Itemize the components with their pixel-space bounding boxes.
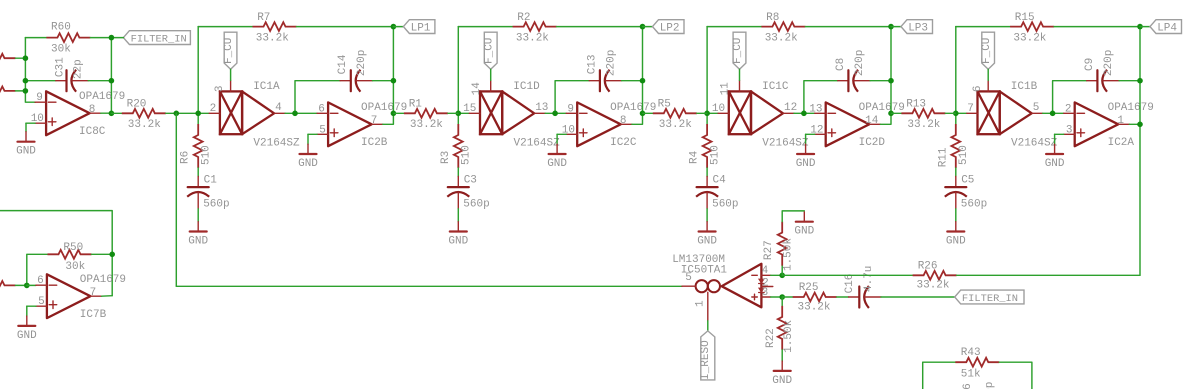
OTA IC1C (V2164SZ) xyxy=(712,80,809,149)
wire IC2C non-inverting to ground xyxy=(557,133,566,135)
wire from left resistor to node xyxy=(16,57,26,59)
wire IC2A ground riser xyxy=(1054,134,1056,144)
wire node up to C9 xyxy=(1053,81,1087,114)
wire R50 to output node xyxy=(92,253,113,255)
wire F_CU flag to IC1B CV pin xyxy=(987,69,989,80)
wire top rail R15 to output node xyxy=(1054,26,1140,28)
resistor R11 xyxy=(937,124,970,168)
svg-text:R4: R4 xyxy=(689,150,701,164)
svg-text:220p: 220p xyxy=(356,50,368,76)
svg-text:R26: R26 xyxy=(918,261,938,273)
net flag FILTER_IN (top) xyxy=(123,31,190,46)
OTA IC50TA1 (LM13700M) xyxy=(672,254,773,321)
wire IC2B ground riser xyxy=(307,134,309,144)
wire top rail R2 to output node xyxy=(557,26,643,28)
wire R3 to C3 xyxy=(457,168,459,177)
wire to R60 left xyxy=(25,37,46,39)
svg-text:33.2k: 33.2k xyxy=(256,32,289,44)
svg-text:14: 14 xyxy=(471,82,483,96)
wire IC8C output to R20 xyxy=(111,112,122,114)
capacitor C5 xyxy=(945,174,987,210)
resistor R2 xyxy=(513,12,557,45)
svg-text:11: 11 xyxy=(720,82,732,96)
svg-text:IC7B: IC7B xyxy=(80,309,107,321)
wire C13 to feedback vertical xyxy=(622,80,643,82)
svg-text:1.50k: 1.50k xyxy=(783,319,795,352)
OTA IC1D (V2164SZ) xyxy=(463,80,560,149)
resistor R60 xyxy=(46,21,90,55)
wire R11 to C5 xyxy=(955,168,957,177)
wire IC2A output to feedback line xyxy=(1129,123,1140,125)
wire node to LP3 flag xyxy=(891,26,901,28)
wire IC2C ground riser xyxy=(556,134,558,144)
svg-text:C8: C8 xyxy=(835,58,847,71)
node pin 3 / R25 / R22 xyxy=(779,294,785,300)
wire R4 to C4 xyxy=(706,168,708,177)
svg-text:22p: 22p xyxy=(73,59,85,79)
wire from left edge to IC7B output node xyxy=(0,211,112,296)
capacitor C13 xyxy=(586,50,621,92)
svg-text:V2164SZ: V2164SZ xyxy=(253,137,300,149)
partial resistor at left edge (row 3) xyxy=(0,281,16,290)
wire bottom-right box right side xyxy=(999,362,1032,389)
node left bus / C31 xyxy=(23,78,29,84)
wire left vertical bus to IC8C pin 9 xyxy=(25,38,35,103)
svg-text:F_CU: F_CU xyxy=(483,38,495,64)
node C31 / feedback vertical xyxy=(109,78,115,84)
wire left resistor to IC7B input node xyxy=(16,284,27,286)
svg-text:C3: C3 xyxy=(464,174,477,186)
svg-text:510: 510 xyxy=(709,145,721,165)
resistor R5 xyxy=(653,98,697,131)
op-amp IC7B (OPA1679) xyxy=(36,274,126,321)
svg-text:R7: R7 xyxy=(257,12,270,24)
wire output vertical to top rail xyxy=(890,27,892,114)
wire output vertical to top rail xyxy=(392,27,394,114)
wire IC2B non-inverting to ground xyxy=(308,133,317,135)
svg-text:R2: R2 xyxy=(517,12,530,24)
svg-text:R3: R3 xyxy=(440,151,452,164)
svg-text:3: 3 xyxy=(214,85,226,92)
svg-text:GND: GND xyxy=(188,236,208,248)
wire IC1D output to node xyxy=(545,112,555,114)
node C9 junction xyxy=(1137,78,1143,84)
wire C14 to feedback vertical xyxy=(373,80,394,82)
svg-text:GND: GND xyxy=(17,330,37,342)
wire resonance feedback vertical xyxy=(175,113,177,286)
wire node to IC2B inverting input xyxy=(295,112,317,114)
svg-text:510: 510 xyxy=(461,145,473,165)
svg-text:LP4: LP4 xyxy=(1157,23,1177,35)
wire feedback vertical of IC8C xyxy=(110,38,112,114)
svg-text:F_CU: F_CU xyxy=(223,38,235,64)
wire resonance feedback horizontal xyxy=(176,285,682,287)
wire node up to R50 xyxy=(27,254,48,285)
net flag LP3 xyxy=(901,20,933,35)
ground below R22 xyxy=(772,361,792,387)
resistor R20 xyxy=(122,98,166,131)
ground below C3 xyxy=(448,222,468,248)
node C14 junction xyxy=(391,78,397,84)
wire IC2D output jog to node xyxy=(880,113,891,124)
svg-text:IC2A: IC2A xyxy=(1108,137,1135,149)
op-amp IC2C (OPA1679) xyxy=(562,102,657,149)
capacitor C16 xyxy=(844,266,881,308)
wire node to IC1D input pin xyxy=(458,112,469,114)
wire IC7B output stub xyxy=(102,295,113,298)
svg-text:7: 7 xyxy=(371,115,378,127)
wire top rail left of R15 xyxy=(956,26,1010,28)
wire C4 to ground xyxy=(706,209,708,222)
net flag F_CU stage 2 xyxy=(483,32,497,69)
svg-text:560p: 560p xyxy=(203,198,229,210)
OTA IC1A (V2164SZ) xyxy=(209,80,300,149)
wire bottom-right box left side xyxy=(923,362,956,389)
wire node to IC1B input pin xyxy=(956,112,967,114)
ground below C1 xyxy=(188,222,208,248)
resistor R1 xyxy=(404,98,448,131)
svg-text:F_CU: F_CU xyxy=(981,38,993,64)
svg-text:15: 15 xyxy=(463,103,476,115)
capacitor C14 xyxy=(337,50,372,92)
wire stage3 input riser to top rail xyxy=(706,27,708,114)
svg-text:6: 6 xyxy=(972,85,984,92)
svg-text:R1: R1 xyxy=(409,98,423,110)
wire top rail left of R2 xyxy=(458,26,512,28)
wire node to LP1 flag xyxy=(393,26,403,28)
svg-text:4: 4 xyxy=(275,102,282,114)
partial label of capacitor C46 (cut at bottom edge) xyxy=(962,382,996,389)
node IC7B inverting input xyxy=(24,283,30,289)
wire top rail left of R8 xyxy=(707,26,761,28)
svg-text:8: 8 xyxy=(89,104,96,116)
resistor R26 xyxy=(913,261,957,292)
svg-text:V2164SZ: V2164SZ xyxy=(1011,137,1058,149)
wire C9 to feedback vertical xyxy=(1119,80,1140,82)
ground at IC8C pin 10 xyxy=(16,132,36,158)
svg-text:R22: R22 xyxy=(765,328,777,348)
svg-text:R43: R43 xyxy=(961,347,981,359)
wire R6 to C1 xyxy=(197,168,199,177)
ground at IC2D xyxy=(796,144,816,170)
svg-text:7: 7 xyxy=(967,103,974,115)
node IC8C output xyxy=(109,111,115,117)
wire LP4 feedback vertical down to resonance mixer xyxy=(1139,27,1141,276)
partial resistor at left edge (row 2) xyxy=(0,87,16,96)
svg-text:33.2k: 33.2k xyxy=(917,280,950,292)
svg-text:V2164SZ: V2164SZ xyxy=(762,137,809,149)
svg-text:12: 12 xyxy=(784,102,797,114)
svg-text:GND: GND xyxy=(448,236,468,248)
wire R20 to filter input node xyxy=(166,112,198,114)
wire stage4 input riser to top rail xyxy=(955,27,957,114)
svg-text:6: 6 xyxy=(318,103,325,115)
svg-text:C1: C1 xyxy=(204,174,218,186)
svg-text:OPA1679: OPA1679 xyxy=(610,102,656,114)
svg-text:GND: GND xyxy=(298,158,318,170)
svg-text:2: 2 xyxy=(1065,103,1072,115)
wire R26 to LP4 feedback vertical xyxy=(957,274,1140,276)
svg-text:510: 510 xyxy=(958,145,970,165)
wire out of R5 xyxy=(697,112,707,114)
svg-text:LP2: LP2 xyxy=(660,23,680,35)
svg-text:1: 1 xyxy=(1117,115,1124,127)
wire node to R3 xyxy=(457,113,459,124)
wire C5 to ground xyxy=(955,209,957,222)
net flag LP2 xyxy=(653,20,685,35)
svg-text:GND: GND xyxy=(794,226,814,238)
wire node to FILTER_IN flag xyxy=(111,37,123,39)
ground below C5 xyxy=(946,222,966,248)
ground at IC2B xyxy=(298,144,318,170)
wire pin 1 to I_RESO flag xyxy=(707,321,709,331)
svg-text:IC2C: IC2C xyxy=(610,137,637,149)
svg-text:220p: 220p xyxy=(854,50,866,76)
wire F_CU flag to IC1C CV pin xyxy=(739,69,741,80)
svg-text:IC1A: IC1A xyxy=(253,81,280,93)
svg-text:8: 8 xyxy=(620,115,627,127)
svg-text:33.2k: 33.2k xyxy=(516,32,549,44)
svg-text:33.2k: 33.2k xyxy=(410,119,443,131)
wire IC2A non-inverting to ground xyxy=(1055,133,1064,135)
node left bus / input resistor 2 xyxy=(23,88,29,94)
node IC2A output xyxy=(1137,122,1143,128)
svg-text:GND: GND xyxy=(697,236,717,248)
svg-text:GND: GND xyxy=(547,158,567,170)
svg-text:220p: 220p xyxy=(605,50,617,76)
wire IC7B ground riser xyxy=(26,306,28,316)
svg-text:2: 2 xyxy=(210,103,217,115)
capacitor C8 xyxy=(835,50,870,92)
svg-text:10: 10 xyxy=(712,103,725,115)
svg-text:R11: R11 xyxy=(937,147,949,167)
node IC2C output xyxy=(640,111,646,117)
resistor R4 xyxy=(689,124,722,168)
svg-text:13: 13 xyxy=(535,102,548,114)
svg-text:6: 6 xyxy=(37,275,44,287)
svg-text:R25: R25 xyxy=(799,282,819,294)
svg-text:9: 9 xyxy=(36,92,43,104)
svg-text:IC1C: IC1C xyxy=(762,81,789,93)
svg-text:220p: 220p xyxy=(1103,50,1115,76)
wire node up to C8 xyxy=(804,81,838,114)
wire node to IC1A input pin xyxy=(198,112,209,114)
op-amp IC2B (OPA1679) xyxy=(317,102,407,149)
node top rail / LP1 xyxy=(391,24,397,30)
net flag LP1 xyxy=(403,20,435,35)
svg-text:LP3: LP3 xyxy=(908,23,928,35)
op-amp IC2A (OPA1679) xyxy=(1064,102,1154,149)
wire node up to C13 xyxy=(555,81,589,114)
svg-text:IC8C: IC8C xyxy=(79,126,106,138)
svg-text:IC2B: IC2B xyxy=(361,137,388,149)
wire node to R4 xyxy=(706,113,708,124)
svg-text:560p: 560p xyxy=(712,198,738,210)
svg-text:7: 7 xyxy=(90,287,97,299)
resistor R7 xyxy=(253,12,297,45)
ground at IC2A xyxy=(1045,144,1065,170)
svg-text:OPA1679: OPA1679 xyxy=(859,102,905,114)
wire R22 to ground xyxy=(781,350,783,361)
svg-text:33.2k: 33.2k xyxy=(128,119,161,131)
svg-text:30k: 30k xyxy=(65,261,85,273)
resistor R22 xyxy=(765,306,795,353)
svg-text:5: 5 xyxy=(38,296,45,308)
svg-text:33.2k: 33.2k xyxy=(765,32,798,44)
svg-text:FILTER_IN: FILTER_IN xyxy=(962,293,1018,305)
wire into R13 xyxy=(891,112,901,114)
node resonance feedback tap xyxy=(174,111,180,117)
node R50 / IC7B output xyxy=(109,252,115,258)
wire F_CU flag to IC1A CV pin xyxy=(230,69,232,80)
op-amp IC2D (OPA1679) xyxy=(809,102,905,149)
svg-text:4: 4 xyxy=(762,265,769,277)
capacitor C4 xyxy=(696,174,738,210)
svg-text:C14: C14 xyxy=(337,54,349,74)
svg-text:51k: 51k xyxy=(961,368,981,380)
capacitor C31 xyxy=(55,57,89,92)
wire IC2D ground riser xyxy=(805,134,807,144)
wire node to R26 xyxy=(782,274,912,276)
wire node to IC7B pin 6 xyxy=(27,284,36,286)
wire out of R1 xyxy=(448,112,458,114)
node pin 4 / R27 / R26 xyxy=(779,273,785,279)
svg-text:560p: 560p xyxy=(984,382,996,389)
net flag F_CU stage 3 xyxy=(732,32,746,69)
svg-text:3: 3 xyxy=(762,287,769,299)
wire into R1 xyxy=(394,112,404,114)
svg-text:OPA1679: OPA1679 xyxy=(1108,102,1154,114)
wire node to R11 xyxy=(955,113,957,124)
svg-text:5: 5 xyxy=(319,124,326,136)
svg-text:LP1: LP1 xyxy=(411,23,431,35)
svg-text:33.2k: 33.2k xyxy=(659,119,692,131)
svg-text:1.50k: 1.50k xyxy=(782,238,794,271)
node top rail / LP3 xyxy=(888,24,894,30)
wire R60 right to FILTER_IN node xyxy=(90,37,111,39)
svg-text:R50: R50 xyxy=(63,242,83,254)
ground at IC7B pin 5 xyxy=(17,316,37,342)
svg-text:560p: 560p xyxy=(463,198,489,210)
node top rail / LP2 xyxy=(640,24,646,30)
resistor R6 xyxy=(180,124,213,168)
OTA IC1B (V2164SZ) xyxy=(967,80,1058,149)
svg-text:GND: GND xyxy=(16,146,36,158)
capacitor C1 xyxy=(187,174,229,210)
wire node up to C14 xyxy=(295,81,340,114)
op-amp U IC8C xyxy=(31,91,126,138)
svg-text:FILTER_IN: FILTER_IN xyxy=(131,34,187,46)
wire pin 3 to node xyxy=(771,296,783,298)
svg-text:30k: 30k xyxy=(51,43,71,55)
wire stage1 input riser to top rail xyxy=(197,27,199,114)
wire output vertical to top rail xyxy=(642,27,644,114)
wire IC8C pin 10 to ground xyxy=(26,122,35,124)
ground above R27 xyxy=(794,212,814,238)
capacitor C9 xyxy=(1084,50,1119,92)
svg-text:510: 510 xyxy=(200,145,212,165)
svg-text:C4: C4 xyxy=(713,174,727,186)
net flag LP4 xyxy=(1150,20,1182,35)
svg-text:GND: GND xyxy=(946,236,966,248)
wire IC1B output to node xyxy=(1043,112,1053,114)
svg-text:33.2k: 33.2k xyxy=(907,119,940,131)
wire node to R22 xyxy=(781,297,783,306)
wire top rail R7 to output node xyxy=(297,26,394,28)
wire from left resistor to node xyxy=(16,90,26,92)
svg-text:C16: C16 xyxy=(844,274,856,294)
svg-text:C13: C13 xyxy=(586,54,598,74)
svg-text:V2164SZ: V2164SZ xyxy=(514,137,561,149)
wire into R5 xyxy=(643,112,653,114)
wire C1 to ground xyxy=(197,209,199,222)
svg-text:C5: C5 xyxy=(961,174,974,186)
wire node to IC1C input pin xyxy=(707,112,718,114)
svg-text:IC1B: IC1B xyxy=(1011,81,1038,93)
wire C8 to feedback vertical xyxy=(870,80,891,82)
svg-text:5: 5 xyxy=(685,272,692,284)
wire node to LP4 flag xyxy=(1140,26,1150,28)
svg-text:GND: GND xyxy=(1045,158,1065,170)
resistor R3 xyxy=(440,124,473,168)
wire IC2D non-inverting to ground xyxy=(806,133,815,135)
wire IC8C output to node xyxy=(101,112,112,114)
wire node to C31 xyxy=(25,80,55,82)
resistor R8 xyxy=(761,12,805,45)
svg-text:I_RESO: I_RESO xyxy=(700,340,712,380)
wire out of R13 xyxy=(945,112,955,114)
svg-text:IC1D: IC1D xyxy=(513,81,540,93)
wire node to R27 xyxy=(781,266,783,276)
svg-text:1: 1 xyxy=(695,300,707,307)
node IC1C output junction xyxy=(801,111,807,117)
wire IC8C ground riser xyxy=(25,123,27,132)
node IC1A output junction xyxy=(292,111,298,117)
wire C16 to FILTER_IN flag xyxy=(881,296,955,298)
partial resistor at left edge (row 1) xyxy=(0,54,16,63)
node C8 junction xyxy=(888,78,894,84)
wire IC1A output to node xyxy=(285,112,295,114)
resistor R15 xyxy=(1010,12,1054,45)
svg-text:IC2D: IC2D xyxy=(859,137,886,149)
capacitor C3 xyxy=(447,174,489,210)
wire node to IC2C inverting input xyxy=(555,112,566,114)
ground at IC2C xyxy=(547,144,567,170)
node stage 1 input xyxy=(195,111,201,117)
svg-text:GND: GND xyxy=(772,375,792,387)
wire top rail R8 to output node xyxy=(805,26,891,28)
svg-text:OPA1679: OPA1679 xyxy=(79,91,125,103)
wire IC1C output to node xyxy=(794,112,804,114)
svg-text:R6: R6 xyxy=(180,151,192,164)
svg-text:OPA1679: OPA1679 xyxy=(80,274,126,286)
wire R25 to C16 xyxy=(837,296,849,298)
svg-text:560p: 560p xyxy=(961,198,987,210)
node R60 / FILTER_IN flag xyxy=(109,35,115,41)
resistor R43 xyxy=(955,347,999,380)
svg-text:R20: R20 xyxy=(127,98,147,110)
svg-text:R15: R15 xyxy=(1015,12,1035,24)
svg-text:R13: R13 xyxy=(906,98,926,110)
svg-text:R5: R5 xyxy=(658,98,671,110)
node top rail / LP4 xyxy=(1137,24,1143,30)
svg-text:OPA1679: OPA1679 xyxy=(361,102,407,114)
svg-text:R27: R27 xyxy=(763,240,775,260)
svg-text:4.7u: 4.7u xyxy=(863,266,875,292)
wire node to R6 xyxy=(197,113,199,124)
node stage 3 input xyxy=(704,111,710,117)
wire pin 4 to node xyxy=(771,274,783,276)
